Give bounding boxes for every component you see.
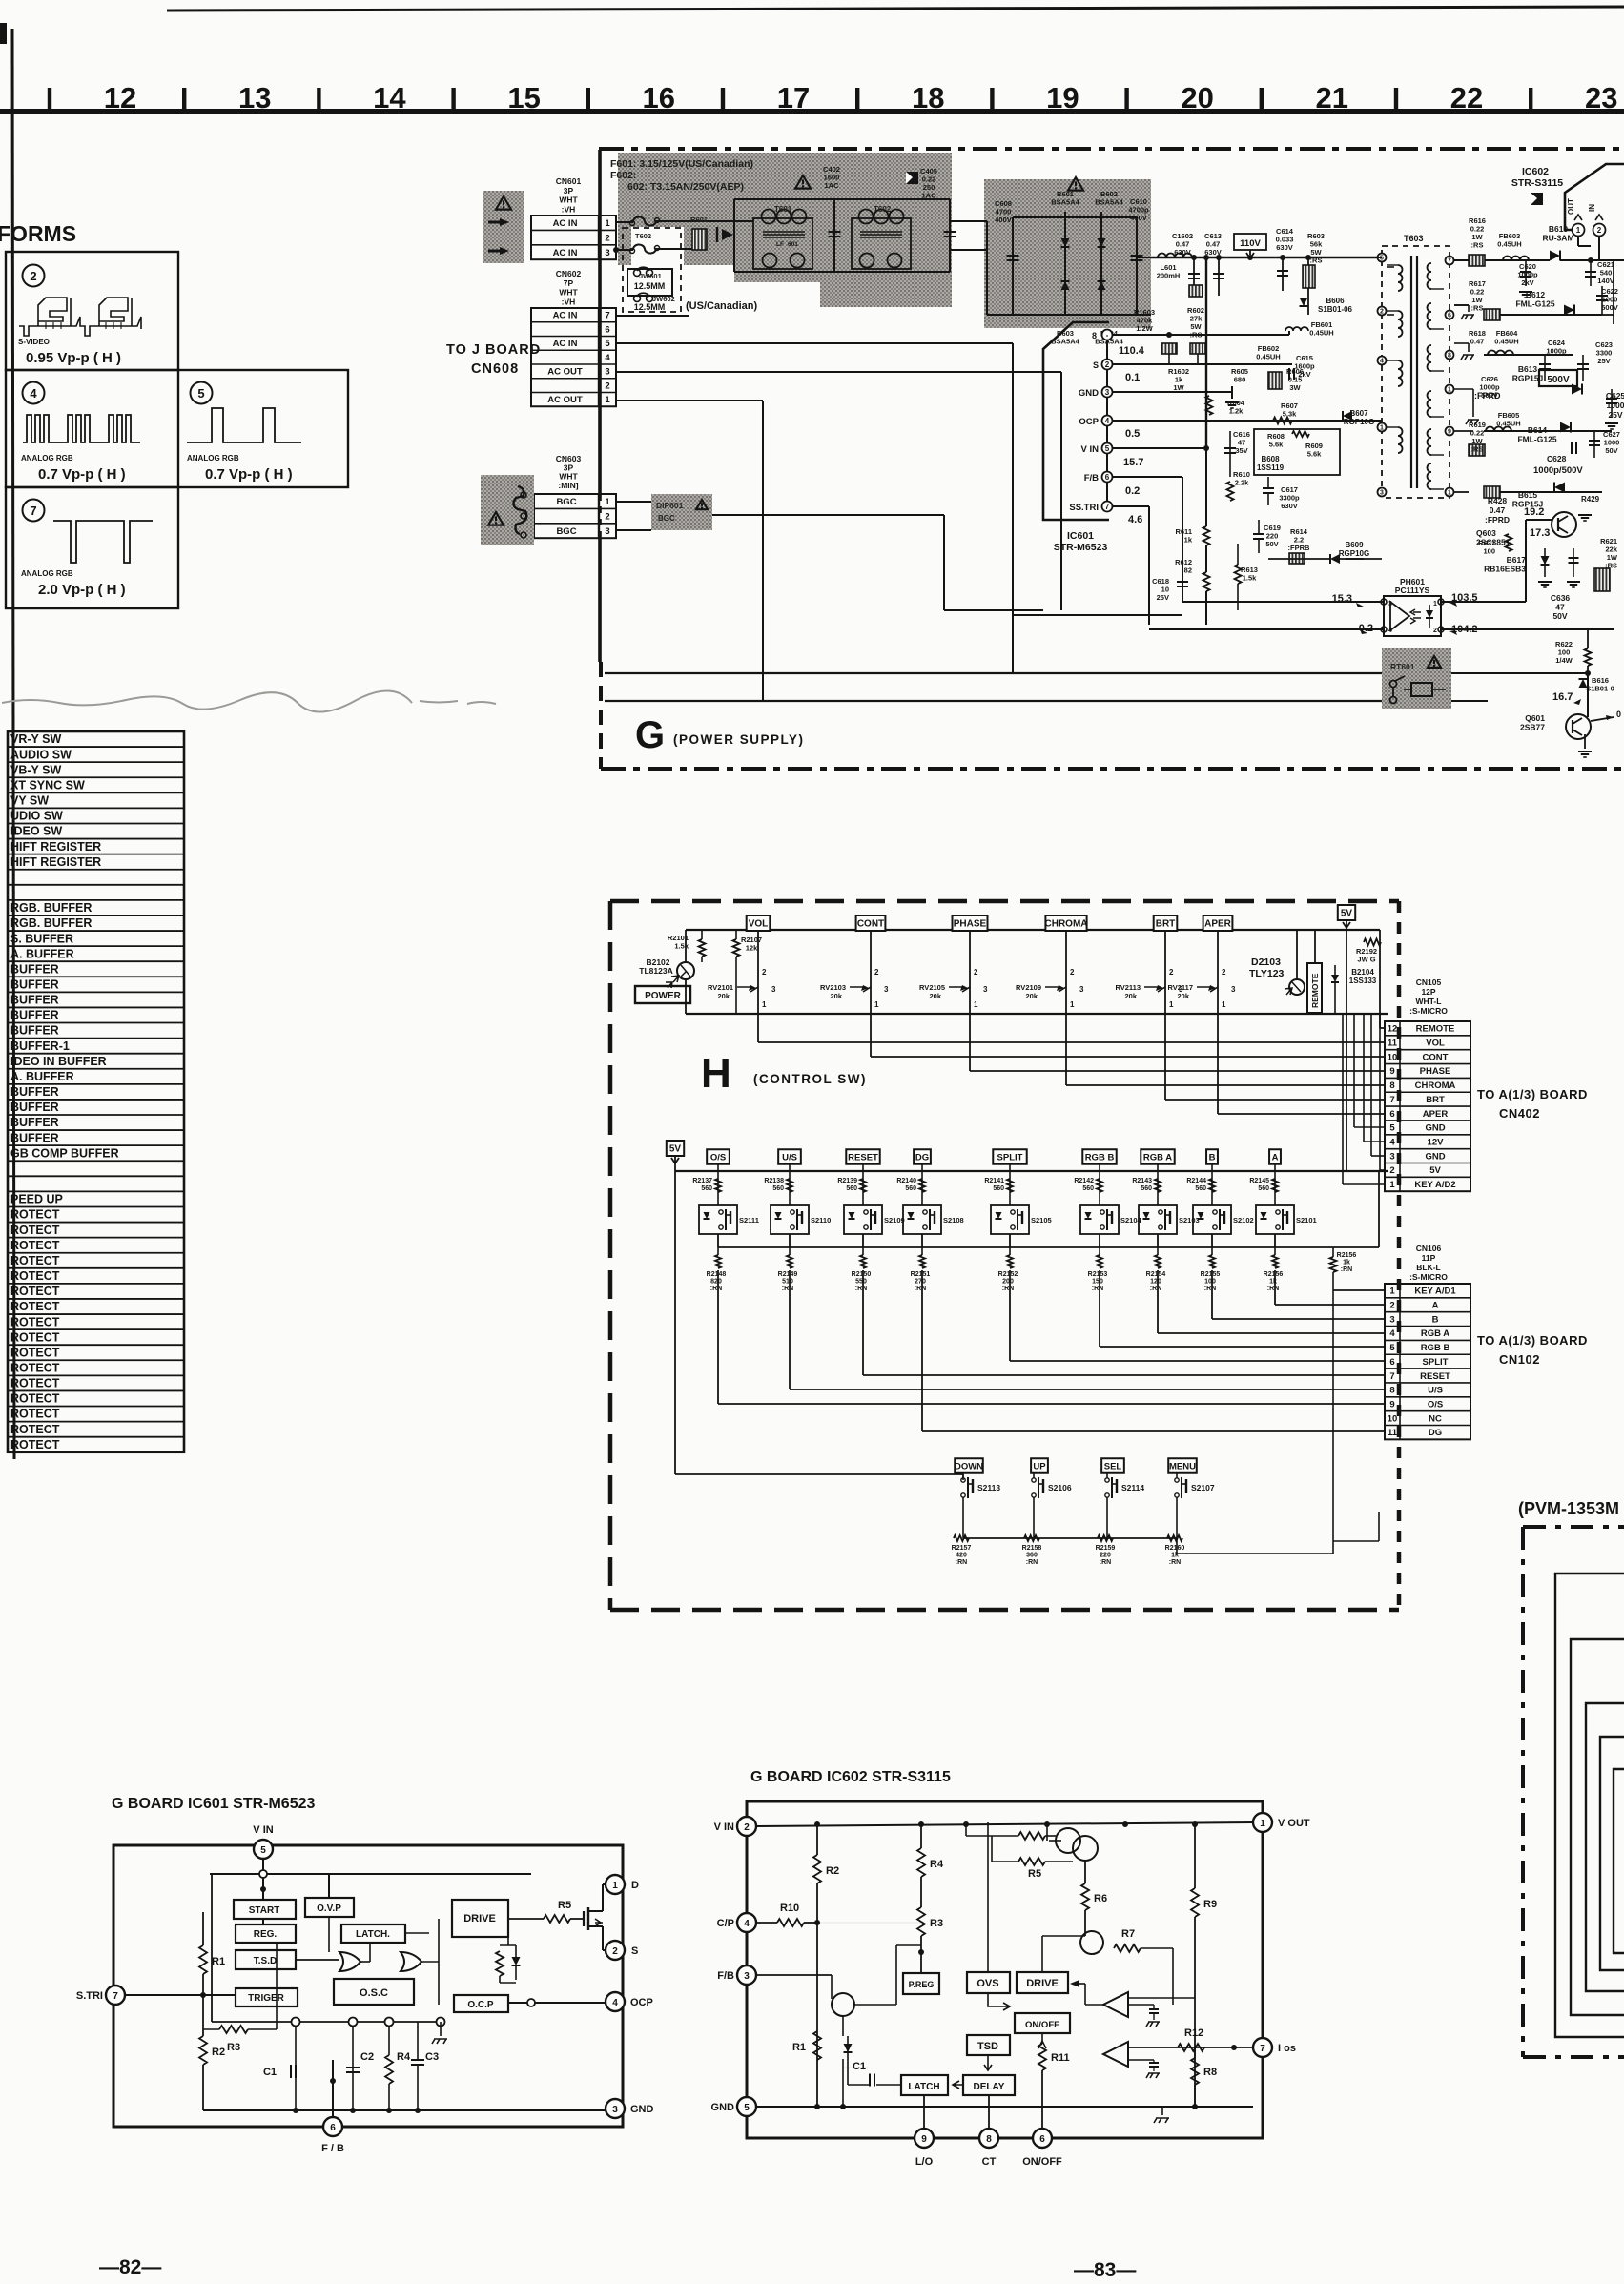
svg-text:C625: C625 xyxy=(1606,391,1624,401)
svg-text:F601: 3.15/125V(US/Canadian): F601: 3.15/125V(US/Canadian) xyxy=(610,158,753,170)
choke L601 xyxy=(1158,254,1192,258)
svg-text:LATCH: LATCH xyxy=(908,2082,939,2092)
svg-text::S-MICRO: :S-MICRO xyxy=(1409,1006,1448,1016)
cap C621 xyxy=(1590,260,1592,286)
IC601 pin1 D xyxy=(606,1875,625,1894)
waveform 4 rgb trace xyxy=(23,415,140,442)
svg-text:560: 560 xyxy=(1082,1185,1094,1192)
cap C614 xyxy=(1282,257,1284,291)
resistor R606 hatched xyxy=(1268,372,1282,389)
svg-text:3: 3 xyxy=(1389,1314,1394,1325)
T603 secondary winding xyxy=(1428,263,1431,289)
resistor R2152 200 xyxy=(1007,1255,1013,1268)
svg-text:S1B01-0: S1B01-0 xyxy=(1586,685,1614,693)
resistor R5 pair xyxy=(1018,1832,1045,1840)
svg-text:500V: 500V xyxy=(1547,375,1570,385)
resistor R617 hatched xyxy=(1484,309,1500,320)
svg-text:B612: B612 xyxy=(1526,290,1546,299)
wire pin2 S xyxy=(1113,363,1292,365)
svg-text:B606: B606 xyxy=(1326,297,1345,305)
rectifier bottom rail xyxy=(987,314,1151,316)
staircase wires to CN106 xyxy=(1274,1278,1276,1305)
svg-text:AC OUT: AC OUT xyxy=(547,395,583,405)
svg-text:C1: C1 xyxy=(263,2067,277,2078)
svg-text:APER: APER xyxy=(1204,919,1232,930)
svg-text:RU-3AM: RU-3AM xyxy=(1542,234,1573,243)
switch S2110 xyxy=(771,1205,809,1234)
svg-text::RS: :RS xyxy=(1190,331,1203,340)
svg-text:2: 2 xyxy=(1169,968,1174,977)
svg-text:R2150: R2150 xyxy=(852,1271,872,1278)
svg-text:0.45UH: 0.45UH xyxy=(1256,353,1280,361)
svg-text:5V: 5V xyxy=(669,1144,682,1155)
svg-text:5: 5 xyxy=(260,1845,266,1856)
LED B2102 POWER xyxy=(677,962,694,979)
resistor R2150 550 xyxy=(860,1255,866,1268)
svg-text:47: 47 xyxy=(1555,603,1565,612)
svg-text:O.S.C: O.S.C xyxy=(360,1987,388,1999)
wire DG xyxy=(921,1163,923,1205)
svg-text:0.7 Vp-p ( H ): 0.7 Vp-p ( H ) xyxy=(38,466,126,483)
resistor R1 xyxy=(199,1945,207,1974)
svg-text:BUFFER: BUFFER xyxy=(10,994,59,1007)
comparator 2 xyxy=(1103,2042,1128,2067)
switch S2108 xyxy=(903,1205,941,1234)
block START xyxy=(234,1900,296,1919)
svg-text:I os: I os xyxy=(1278,2043,1296,2054)
svg-text:6: 6 xyxy=(1389,1109,1394,1120)
svg-text:RV2113: RV2113 xyxy=(1115,983,1141,992)
svg-text:5: 5 xyxy=(1105,444,1110,453)
svg-text:RB16ESB3: RB16ESB3 xyxy=(1484,565,1526,574)
svg-text:25V: 25V xyxy=(1157,593,1169,602)
svg-text:20k: 20k xyxy=(1177,992,1189,1000)
resistor hatched pair on S wire xyxy=(1161,343,1177,354)
svg-text:TRIGER: TRIGER xyxy=(248,1993,285,2004)
svg-text::RN: :RN xyxy=(1341,1266,1352,1273)
svg-text:3: 3 xyxy=(612,2105,618,2115)
svg-text:UP: UP xyxy=(1033,1461,1046,1471)
IC602 pin6 ONOFF xyxy=(1033,2129,1052,2148)
switch S2102 xyxy=(1193,1205,1231,1234)
svg-text:RGB B: RGB B xyxy=(1421,1343,1450,1353)
svg-text:CT: CT xyxy=(982,2156,997,2168)
svg-text:GND: GND xyxy=(630,2104,654,2115)
svg-text:B614: B614 xyxy=(1528,425,1548,435)
block OVS xyxy=(967,1972,1010,1993)
svg-text:420: 420 xyxy=(956,1553,967,1559)
svg-text:CN106: CN106 xyxy=(1416,1244,1442,1253)
comparator 1 wires xyxy=(1085,2004,1103,2006)
svg-text:B: B xyxy=(1432,1314,1439,1325)
svg-text:0.45UH: 0.45UH xyxy=(1496,420,1520,428)
svg-text:15.3: 15.3 xyxy=(1332,593,1352,605)
block TSD xyxy=(967,2035,1010,2055)
resistor R612 xyxy=(1203,572,1210,591)
svg-text:6: 6 xyxy=(1448,313,1451,319)
IC601 pin5 VIN xyxy=(1102,443,1113,454)
svg-text:—83—: —83— xyxy=(1074,2259,1136,2281)
block TSD xyxy=(236,1950,296,1969)
svg-text:R9: R9 xyxy=(1203,1899,1217,1910)
svg-text:UDIO SW: UDIO SW xyxy=(10,810,63,823)
svg-text:(US/Canadian): (US/Canadian) xyxy=(686,300,758,312)
svg-text:5: 5 xyxy=(1389,1343,1395,1353)
zener z1 xyxy=(847,2036,849,2068)
svg-text:3: 3 xyxy=(1380,490,1384,497)
transistor Q603 xyxy=(1552,512,1576,537)
svg-text:S2113: S2113 xyxy=(977,1483,1000,1492)
IC601 pin2 S xyxy=(606,1941,625,1960)
svg-text:2: 2 xyxy=(1380,309,1384,316)
svg-text:2: 2 xyxy=(605,511,609,522)
svg-text:0.95 Vp-p ( H ): 0.95 Vp-p ( H ) xyxy=(26,350,121,366)
svg-text:FML-G125: FML-G125 xyxy=(1517,435,1556,444)
svg-text:1: 1 xyxy=(1260,1819,1265,1829)
svg-text:2: 2 xyxy=(1070,968,1075,977)
svg-text:VY SW: VY SW xyxy=(10,794,49,808)
svg-text:AC IN: AC IN xyxy=(553,218,578,229)
switch bottom bus xyxy=(718,1246,1379,1248)
IC602 pin3 FB xyxy=(737,1965,756,1985)
svg-text:140V: 140V xyxy=(1597,277,1614,285)
svg-text:R3: R3 xyxy=(227,2042,240,2053)
svg-text:S-VIDEO: S-VIDEO xyxy=(18,338,50,346)
svg-text:R1: R1 xyxy=(792,2042,806,2053)
svg-text:0.1: 0.1 xyxy=(1125,372,1140,383)
svg-text:RESET: RESET xyxy=(848,1152,878,1163)
svg-text:STR-S3115: STR-S3115 xyxy=(1511,177,1563,189)
svg-text:3: 3 xyxy=(1389,1151,1394,1162)
resistor R616 hatched xyxy=(1469,255,1485,266)
resistor R3v xyxy=(917,1907,925,1936)
svg-text:2: 2 xyxy=(744,1822,750,1833)
svg-text:1: 1 xyxy=(1169,1000,1174,1009)
svg-text:2: 2 xyxy=(1433,628,1437,634)
svg-text:RGP10G: RGP10G xyxy=(1344,418,1374,426)
FB tap wire xyxy=(330,2078,336,2084)
svg-text:20k: 20k xyxy=(830,992,842,1000)
svg-text:6: 6 xyxy=(1105,473,1110,482)
or gate 1 xyxy=(339,1952,360,1971)
wire PHASE down xyxy=(969,930,971,1014)
svg-text:NC: NC xyxy=(1429,1413,1442,1424)
svg-text:ROTECT: ROTECT xyxy=(10,1423,60,1436)
connector CN602 xyxy=(531,308,616,406)
waveform circled 4 xyxy=(23,382,45,404)
FB transistor wire xyxy=(854,2004,896,2006)
svg-text:RV2103: RV2103 xyxy=(820,983,846,992)
PH601 pins xyxy=(1381,599,1387,605)
svg-text:JW601: JW601 xyxy=(639,272,662,280)
svg-text:R10: R10 xyxy=(780,1903,799,1914)
cap C608 symbol xyxy=(1012,217,1014,315)
svg-text:SPLIT: SPLIT xyxy=(997,1152,1023,1163)
svg-text:V OUT: V OUT xyxy=(1278,1818,1310,1829)
svg-text:P.REG: P.REG xyxy=(909,1980,935,1989)
potentiometer RV2101 xyxy=(737,987,758,992)
ruler tick xyxy=(1124,88,1128,113)
svg-text:82: 82 xyxy=(1184,566,1192,575)
svg-text:4: 4 xyxy=(30,386,37,401)
comparator 1 xyxy=(1103,1992,1128,2017)
svg-text:V IN: V IN xyxy=(714,1821,734,1833)
IC601 pin8 xyxy=(1102,330,1113,340)
svg-text:MENU: MENU xyxy=(1169,1461,1196,1471)
control label CONT xyxy=(856,916,886,931)
wire CHROMA down xyxy=(1065,930,1067,1014)
svg-text:10: 10 xyxy=(1388,1413,1398,1424)
svg-text::S-MICRO: :S-MICRO xyxy=(1409,1272,1448,1282)
svg-text::RS: :RS xyxy=(1471,304,1484,313)
warning block at CN603 xyxy=(481,475,534,545)
wires exiting H bottom left xyxy=(1333,1540,1379,1542)
cap near B617 xyxy=(1573,548,1574,577)
svg-text:R601: R601 xyxy=(690,216,708,224)
5V box top right xyxy=(1338,905,1355,920)
svg-text:1.2k: 1.2k xyxy=(1229,407,1244,416)
svg-text:F / B: F / B xyxy=(321,2143,344,2154)
svg-text:—82—: —82— xyxy=(99,2256,161,2278)
svg-text:0.5: 0.5 xyxy=(1125,428,1140,440)
svg-text:S1B01-06: S1B01-06 xyxy=(1318,305,1353,314)
svg-text:BUFFER: BUFFER xyxy=(10,962,59,976)
svg-text:B608: B608 xyxy=(1261,455,1280,463)
resistor R622 xyxy=(1585,648,1592,666)
svg-text:ROTECT: ROTECT xyxy=(10,1392,60,1406)
nested rect 5 xyxy=(1614,1769,1624,1953)
svg-text:5: 5 xyxy=(1389,1123,1395,1134)
svg-text:REMOTE: REMOTE xyxy=(1310,973,1320,1008)
svg-text:500V: 500V xyxy=(1601,303,1618,312)
svg-text:3: 3 xyxy=(1388,601,1392,607)
G section left border xyxy=(599,662,603,769)
waveform circled 2 xyxy=(23,265,45,287)
block DELAY xyxy=(963,2075,1015,2095)
resistor R631 xyxy=(1506,534,1512,551)
svg-text:WHT-L: WHT-L xyxy=(1416,997,1442,1006)
IC602 pin2 VIN xyxy=(1593,224,1606,237)
svg-text:TLY123: TLY123 xyxy=(1249,968,1285,979)
svg-text:1: 1 xyxy=(874,1000,879,1009)
OVS up wire xyxy=(987,1822,989,1972)
svg-text:400V: 400V xyxy=(995,216,1012,224)
svg-text::RN: :RN xyxy=(956,1559,967,1566)
svg-text:S2109: S2109 xyxy=(884,1216,905,1224)
svg-text:4: 4 xyxy=(744,1919,750,1929)
svg-text:(PVM-1353M: (PVM-1353M xyxy=(1518,1499,1619,1518)
svg-text::RS: :RS xyxy=(1471,241,1484,250)
resistor R8 xyxy=(1191,2058,1199,2085)
cap C601 dark blob xyxy=(722,229,733,240)
IC601 pin column connect xyxy=(1106,340,1108,359)
resistor R2v xyxy=(816,1824,818,1855)
IC602 top rail xyxy=(756,1822,1253,1826)
svg-text::RN: :RN xyxy=(1002,1286,1014,1292)
svg-text:BGC: BGC xyxy=(556,497,576,507)
svg-text:5.3k: 5.3k xyxy=(1283,410,1297,419)
H border top xyxy=(610,899,1399,904)
svg-text:R6: R6 xyxy=(1094,1893,1107,1904)
svg-text:20: 20 xyxy=(1181,81,1213,114)
svg-text:4: 4 xyxy=(612,1998,618,2008)
REMOTE vertical box xyxy=(1307,963,1322,1013)
svg-text:CHROMA: CHROMA xyxy=(1415,1080,1456,1091)
switch column label RESET xyxy=(846,1149,879,1164)
resistor R7 xyxy=(1114,1944,1141,1952)
capacitor C3 xyxy=(417,2027,419,2110)
svg-text:0.47: 0.47 xyxy=(1470,338,1485,346)
svg-text:12: 12 xyxy=(104,81,136,114)
svg-text:RV2109: RV2109 xyxy=(1016,983,1041,992)
rectifier diodes xyxy=(1064,212,1066,315)
ruler bar xyxy=(0,109,1624,114)
svg-text:1: 1 xyxy=(605,497,610,507)
svg-text:DRIVE: DRIVE xyxy=(463,1913,496,1924)
waveform box 2 frame xyxy=(6,252,178,370)
resistor R2101 xyxy=(699,939,706,957)
svg-text:CONT: CONT xyxy=(857,919,884,930)
resistor R611 xyxy=(1203,526,1210,545)
resistor R621 hatched xyxy=(1594,568,1610,591)
diode B2104 xyxy=(1331,975,1339,982)
svg-text:560: 560 xyxy=(905,1185,916,1192)
svg-text:1/2W: 1/2W xyxy=(1136,324,1153,333)
svg-text:17.3: 17.3 xyxy=(1530,527,1550,539)
cap C610 symbol xyxy=(1136,217,1138,315)
svg-text:G: G xyxy=(635,714,665,756)
svg-text:F/B: F/B xyxy=(1084,473,1099,484)
resistor R9 xyxy=(1194,1824,1196,1888)
svg-text:V IN: V IN xyxy=(1081,444,1100,455)
svg-text::FPRB: :FPRB xyxy=(1288,544,1310,552)
svg-text:S2114: S2114 xyxy=(1121,1483,1144,1492)
svg-text:1SS119: 1SS119 xyxy=(1257,463,1285,472)
svg-text:RESET: RESET xyxy=(1420,1371,1450,1382)
svg-text:OUT: OUT xyxy=(1567,198,1575,215)
svg-text:KEY A/D1: KEY A/D1 xyxy=(1414,1286,1456,1297)
svg-text:1: 1 xyxy=(1433,601,1437,607)
svg-text:A. BUFFER: A. BUFFER xyxy=(10,947,74,960)
svg-text:16: 16 xyxy=(643,81,675,114)
svg-text:R2: R2 xyxy=(826,1865,839,1877)
gray area line filter extension xyxy=(820,282,952,307)
svg-text:IN: IN xyxy=(1588,204,1596,212)
svg-text:5: 5 xyxy=(197,386,204,401)
svg-text:WHT: WHT xyxy=(559,288,578,298)
svg-text:RGB. BUFFER: RGB. BUFFER xyxy=(10,901,92,915)
svg-text:8: 8 xyxy=(986,2134,992,2145)
wire rail into T603 xyxy=(1373,257,1382,258)
svg-text:7: 7 xyxy=(1105,503,1110,511)
resistor R2153 150 xyxy=(1097,1255,1102,1268)
svg-text:560: 560 xyxy=(701,1185,712,1192)
svg-text:CN601: CN601 xyxy=(556,176,582,186)
svg-text:0.2: 0.2 xyxy=(1125,485,1140,497)
svg-text:2.0 Vp-p ( H ): 2.0 Vp-p ( H ) xyxy=(38,582,126,598)
wire U/S xyxy=(789,1163,791,1205)
resistor R2156 1k xyxy=(1272,1255,1278,1268)
control label APER xyxy=(1203,916,1233,931)
cap C619 xyxy=(1253,533,1264,535)
svg-text:2: 2 xyxy=(612,1946,618,1957)
diode B606 xyxy=(1307,296,1309,315)
diode D616 xyxy=(1587,673,1589,710)
cap C616 xyxy=(1229,431,1231,477)
svg-text:VR-Y SW: VR-Y SW xyxy=(10,732,61,746)
resistor R613 xyxy=(1235,565,1242,584)
svg-text:1SS133: 1SS133 xyxy=(1349,977,1377,985)
horizontal bus y706 xyxy=(605,672,1382,674)
pot bottom bus xyxy=(686,1013,1388,1015)
darlington transistors xyxy=(1056,1828,1080,1853)
svg-text:Q601: Q601 xyxy=(1525,713,1545,723)
svg-text:(CONTROL SW): (CONTROL SW) xyxy=(753,1072,867,1086)
svg-text:7: 7 xyxy=(30,504,36,518)
svg-text:1: 1 xyxy=(1576,226,1581,235)
IC602 diagram outer box xyxy=(747,1801,1263,2138)
heavy vertical bus at connectors xyxy=(598,150,602,494)
svg-text:C1: C1 xyxy=(853,2061,866,2072)
svg-text:1.5k: 1.5k xyxy=(1243,574,1257,583)
resistor R602 hatched xyxy=(1189,285,1203,297)
svg-text:(POWER SUPPLY): (POWER SUPPLY) xyxy=(673,732,805,747)
svg-text:4: 4 xyxy=(1388,628,1392,634)
svg-text:12V: 12V xyxy=(1428,1137,1445,1147)
svg-text:O.C.P: O.C.P xyxy=(467,2000,494,2010)
svg-text:ROTECT: ROTECT xyxy=(10,1362,60,1375)
svg-text::RN: :RN xyxy=(855,1286,867,1292)
IC601 pin3 GND xyxy=(1102,387,1113,398)
svg-text:2: 2 xyxy=(974,968,978,977)
switch top bus xyxy=(675,1170,1388,1172)
svg-text:CN102: CN102 xyxy=(1499,1352,1540,1367)
svg-text:DG: DG xyxy=(1429,1428,1442,1438)
svg-text:TO J BOARD: TO J BOARD xyxy=(446,342,541,358)
T603 core xyxy=(1410,256,1412,488)
svg-text::RN: :RN xyxy=(1100,1559,1111,1566)
potentiometer RV2103 xyxy=(850,987,871,992)
control label PHASE xyxy=(953,916,988,931)
ruler tick xyxy=(855,88,859,113)
lower left area wires xyxy=(1060,520,1062,610)
IC601 pin6 FB xyxy=(1102,472,1113,483)
svg-text:820: 820 xyxy=(710,1279,722,1286)
svg-text:FML-G125: FML-G125 xyxy=(1515,299,1554,309)
icon filled square xyxy=(906,172,918,184)
capacitor C2 xyxy=(352,2027,354,2110)
resistor R2107 xyxy=(733,939,740,957)
switch column label A xyxy=(1269,1149,1281,1164)
svg-text:2: 2 xyxy=(1389,1301,1394,1311)
svg-text:1W: 1W xyxy=(1173,383,1184,392)
resistor R601 hatched xyxy=(692,229,707,250)
switch column label B xyxy=(1206,1149,1218,1164)
svg-text::RS: :RS xyxy=(1605,562,1617,570)
svg-text:IC601: IC601 xyxy=(1067,530,1094,542)
T603 pins left xyxy=(1378,254,1387,262)
svg-text:1: 1 xyxy=(1448,490,1451,497)
svg-text:IC602: IC602 xyxy=(1522,166,1549,177)
svg-text:R4: R4 xyxy=(397,2051,411,2063)
svg-text:100: 100 xyxy=(1204,1279,1216,1286)
menu switch label DOWN xyxy=(955,1458,983,1473)
jumper select dashed box xyxy=(623,228,681,312)
switch column label SPLIT xyxy=(993,1149,1026,1164)
svg-text:12.5MM: 12.5MM xyxy=(634,281,666,291)
block DRIVE2 xyxy=(1017,1972,1068,1993)
svg-text:A: A xyxy=(1432,1301,1439,1311)
